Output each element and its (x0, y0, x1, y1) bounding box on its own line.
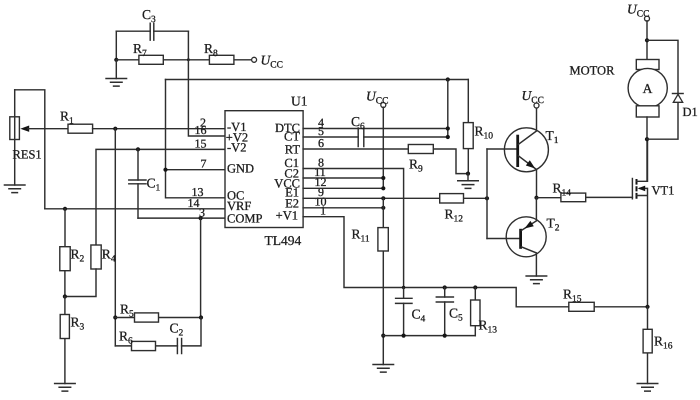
node motor bottom junction (645, 137, 649, 141)
svg-text:-V2: -V2 (227, 141, 246, 155)
resistor R15 (563, 287, 648, 312)
wire base vertical T1/T2 (486, 149, 488, 239)
capacitor C6 on CT line (303, 114, 448, 147)
ground below T2 (525, 276, 547, 284)
svg-text:VT1: VT1 (652, 184, 675, 198)
pin 12 VCC (274, 175, 326, 190)
resistor R12 (440, 194, 487, 225)
svg-text:15: 15 (195, 136, 207, 150)
pin 2 label and wire (200, 116, 246, 134)
svg-text:3: 3 (199, 205, 205, 219)
pin 6 RT (285, 136, 324, 156)
node motor top junction (645, 38, 649, 42)
node R7/R8/C3 right junction (187, 58, 190, 61)
node C3/R7 junction (114, 58, 118, 62)
node DTC tie (446, 126, 450, 130)
svg-text:+V1: +V1 (276, 208, 298, 222)
svg-text:D1: D1 (683, 105, 698, 119)
node GND/OC junction (163, 168, 167, 172)
wire RES1 top to VRF rail (15, 90, 45, 209)
pin 3 label (199, 205, 262, 225)
wire VCC pin12 (303, 187, 383, 189)
ground below C3/R7 junction (105, 60, 127, 86)
node R2/R3/R4 junction (63, 294, 67, 298)
wire pin15 to R4 (96, 149, 225, 245)
pin 4 DTC (275, 115, 324, 135)
pin 5 CT (284, 124, 324, 144)
wire motor bottom (646, 117, 648, 181)
ground below R3 (54, 384, 76, 392)
wire R1 node down to R5/R6 (114, 129, 116, 346)
pin 10 E2 (285, 195, 326, 211)
node CT tie (446, 135, 450, 139)
wire C3 left to R7 junction (115, 31, 117, 60)
resistor R9 on RT line (303, 145, 468, 175)
svg-text:1: 1 (320, 204, 326, 218)
svg-text:RT: RT (285, 142, 301, 156)
node R5 right junction (199, 315, 203, 319)
wire C3 node down to pin16 of U1 (188, 31, 225, 136)
node R15/R16/VT1 source junction (645, 305, 649, 309)
terminal Ucc (top right) (627, 2, 650, 22)
wire GND/OC vertical with top rail (166, 80, 226, 198)
svg-text:6: 6 (318, 136, 324, 150)
svg-text:16: 16 (195, 123, 207, 137)
resistor R8 (188, 41, 252, 64)
node T1 emitter/T2 collector junction (534, 196, 538, 200)
node C4 top junction (402, 286, 405, 289)
svg-text:GND: GND (227, 161, 254, 175)
node R13 top junction (473, 285, 477, 289)
resistor R10 (463, 80, 493, 174)
svg-text:7: 7 (201, 157, 207, 171)
wire DTC/CT tie vertical (447, 80, 449, 138)
resistor R4 (65, 245, 116, 297)
node R5 left junction (113, 315, 117, 319)
resistor R16 (643, 307, 673, 384)
transistor VT1 (MOSFET) (632, 139, 674, 307)
resistor R1 (60, 109, 225, 134)
node C4 bottom junction (402, 334, 406, 338)
capacitor C1 (129, 149, 161, 218)
pin 8 C1 (284, 155, 324, 170)
node C5 bottom junction (443, 334, 447, 338)
ground below RES1 (4, 185, 26, 193)
node bottom rail left junction (381, 334, 385, 338)
node R9/R10/ground junction (466, 172, 470, 176)
wire top ground rail (166, 79, 469, 81)
pin 16 label (195, 123, 249, 144)
op-amp U1 TL494 IC body (225, 94, 308, 249)
node C2/Ucc junction (381, 176, 385, 180)
wire DTC pin4 (303, 128, 448, 130)
potentiometer RES1 (10, 90, 68, 185)
pin 15 label (195, 136, 247, 154)
motor M1 (570, 60, 668, 118)
node E2/R11 junction (381, 206, 385, 210)
ground below R10 (457, 174, 479, 189)
node pin15/C1 junction (136, 147, 140, 151)
svg-text:MOTOR: MOTOR (570, 64, 616, 78)
ground below R16 (637, 384, 659, 392)
node E1/R11 junction (381, 196, 385, 200)
resistor R6 (115, 329, 177, 351)
pin 11 C2 (284, 165, 325, 181)
wire C2 pin11 (303, 177, 383, 179)
transistor T1 (487, 108, 559, 198)
svg-text:COMP: COMP (227, 212, 262, 226)
capacitor C3 (116, 7, 188, 40)
capacitor C5 (436, 288, 463, 336)
wire C1 pin8 down to feedback line (303, 169, 404, 288)
wire +V1 pin1 to feedback line (303, 217, 569, 307)
terminal Ucc (middle) (366, 89, 388, 108)
svg-text:14: 14 (188, 196, 200, 210)
node VCC/Ucc junction (381, 186, 385, 190)
pin 1 +V1 (276, 204, 326, 223)
diode D1 (647, 40, 698, 139)
resistor R13 (471, 288, 498, 336)
wire Ucc down to motor (646, 21, 648, 60)
wire E1 pin9 to R12 (303, 197, 440, 199)
resistor R14 (537, 181, 633, 202)
terminal Ucc (T1 collector) (522, 88, 544, 108)
svg-text:U1: U1 (291, 94, 308, 109)
wire COMP node down to R5 right node (200, 218, 202, 317)
wire C1 bottom to COMP pin3 (138, 217, 225, 219)
node rail/DTC-CT vertical top (446, 77, 450, 81)
resistor R3 (60, 297, 84, 384)
pin 13 label (192, 185, 245, 203)
resistor R11 (352, 198, 389, 364)
resistor R5 (115, 302, 201, 323)
pin 9 E1 (285, 185, 324, 199)
node C5 top junction (443, 285, 447, 289)
resistor R2 (60, 209, 85, 297)
wire bottom rail (383, 335, 475, 337)
node R12/base junction (485, 196, 489, 200)
wire E2 pin10 (303, 207, 383, 209)
node R1/R5 branch junction (113, 127, 117, 131)
ground below R11 (372, 365, 394, 373)
svg-text:TL494: TL494 (265, 233, 302, 248)
svg-text:A: A (643, 81, 653, 96)
svg-text:RES1: RES1 (13, 148, 42, 162)
node VRF/R2 junction (63, 207, 67, 211)
pin 14 label (188, 196, 252, 213)
wire VRF pin14 (45, 208, 225, 210)
capacitor C2 (170, 318, 202, 354)
terminal Ucc (top left) (252, 53, 283, 71)
resistor R7 (116, 41, 188, 64)
wire Ucc vertical to VCC (382, 107, 384, 188)
pin 7 label (201, 157, 255, 176)
transistor T2 (487, 198, 560, 276)
capacitor C4 (396, 288, 426, 336)
node COMP junction (199, 216, 203, 220)
